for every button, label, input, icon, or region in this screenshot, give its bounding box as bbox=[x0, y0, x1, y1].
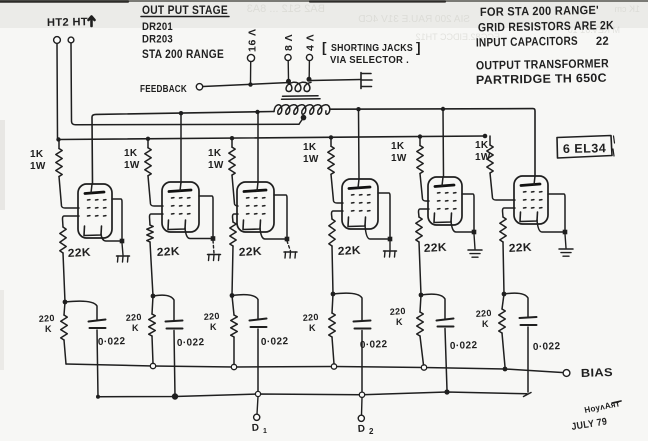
svg-text:K: K bbox=[132, 323, 139, 333]
svg-text:16 Λ: 16 Λ bbox=[247, 28, 259, 52]
svg-text:0·022: 0·022 bbox=[98, 336, 126, 348]
svg-text:1K: 1K bbox=[208, 148, 222, 159]
svg-text:STA 200 RANGE: STA 200 RANGE bbox=[142, 49, 224, 61]
svg-text:K: K bbox=[309, 323, 316, 333]
svg-text:22K: 22K bbox=[509, 242, 533, 255]
svg-text:DR203: DR203 bbox=[142, 34, 173, 46]
svg-text:1: 1 bbox=[263, 428, 267, 435]
svg-text:SIA 200 RAU.E 31V 4CD: SIA 200 RAU.E 31V 4CD bbox=[358, 14, 470, 25]
svg-text:BA2 S12 ... 8A3: BA2 S12 ... 8A3 bbox=[247, 3, 325, 15]
svg-text:1K: 1K bbox=[124, 148, 138, 159]
svg-text:220: 220 bbox=[475, 308, 492, 319]
svg-text:220: 220 bbox=[389, 306, 406, 317]
svg-text:6 EL34: 6 EL34 bbox=[563, 141, 607, 156]
svg-text:1W: 1W bbox=[124, 160, 140, 171]
svg-text:0·022: 0·022 bbox=[533, 341, 561, 353]
svg-text:22K: 22K bbox=[424, 242, 448, 255]
svg-text:K: K bbox=[45, 324, 52, 334]
svg-text:OUT PUT STAGE: OUT PUT STAGE bbox=[142, 5, 228, 17]
svg-text:1W: 1W bbox=[475, 152, 491, 163]
svg-text:SHORTING JACKS: SHORTING JACKS bbox=[331, 42, 413, 54]
svg-text:K: K bbox=[482, 319, 489, 329]
svg-text:1K: 1K bbox=[303, 142, 317, 153]
svg-text:2: 2 bbox=[369, 427, 374, 436]
svg-text:22K: 22K bbox=[239, 246, 263, 259]
svg-text:1W: 1W bbox=[30, 161, 46, 172]
svg-text:22K: 22K bbox=[68, 247, 92, 260]
svg-text:K: K bbox=[210, 322, 217, 332]
svg-text:[: [ bbox=[322, 40, 327, 55]
svg-text:DR201: DR201 bbox=[142, 21, 173, 33]
svg-text:0·022: 0·022 bbox=[450, 340, 478, 352]
svg-text:22K: 22K bbox=[338, 245, 362, 258]
svg-text:220: 220 bbox=[125, 312, 142, 323]
svg-text:INPUT CAPACITORS: INPUT CAPACITORS bbox=[476, 34, 578, 50]
svg-text:BIAS: BIAS bbox=[581, 367, 613, 380]
svg-text:8 Λ: 8 Λ bbox=[283, 34, 295, 51]
svg-text:FEEDBACK: FEEDBACK bbox=[140, 83, 187, 95]
svg-text:HT2 HT: HT2 HT bbox=[47, 16, 88, 29]
svg-text:1K: 1K bbox=[391, 141, 405, 152]
svg-text:FOR STA 200 RANGE': FOR STA 200 RANGE' bbox=[480, 3, 599, 19]
svg-text:4 Λ: 4 Λ bbox=[305, 34, 317, 51]
svg-text:22: 22 bbox=[596, 34, 609, 48]
svg-text:]: ] bbox=[416, 40, 421, 55]
svg-text:1W: 1W bbox=[208, 160, 224, 171]
svg-text:1W: 1W bbox=[303, 154, 319, 165]
svg-text:GRID RESISTORS ARE 2K: GRID RESISTORS ARE 2K bbox=[478, 18, 614, 34]
svg-text:22K: 22K bbox=[157, 246, 181, 259]
svg-text:K: K bbox=[396, 317, 403, 327]
svg-text:0·022: 0·022 bbox=[360, 339, 388, 351]
svg-text:D: D bbox=[251, 422, 259, 433]
svg-text:D: D bbox=[357, 423, 365, 434]
svg-text:220: 220 bbox=[302, 312, 319, 323]
svg-text:VIA SELECTOR .: VIA SELECTOR . bbox=[330, 54, 409, 66]
svg-text:1K: 1K bbox=[475, 140, 489, 151]
svg-text:1K: 1K bbox=[30, 149, 44, 160]
svg-text:220: 220 bbox=[203, 311, 220, 322]
svg-text:220: 220 bbox=[38, 313, 55, 324]
svg-text:PARTRIDGE TH 650C: PARTRIDGE TH 650C bbox=[476, 71, 607, 87]
svg-text:1W: 1W bbox=[391, 153, 407, 164]
svg-text:1K cm: 1K cm bbox=[614, 4, 640, 14]
svg-text:0·022: 0·022 bbox=[261, 336, 289, 348]
svg-text:0·022: 0·022 bbox=[177, 337, 205, 349]
